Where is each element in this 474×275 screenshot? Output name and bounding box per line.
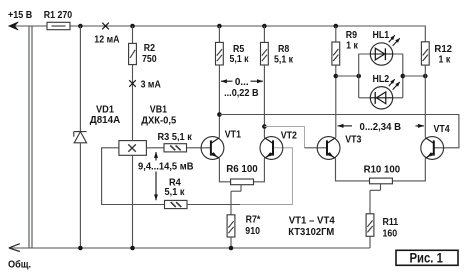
- svg-text:VT2: VT2: [281, 130, 297, 142]
- hall sensor VB1: [119, 141, 146, 156]
- svg-text:5,1 к: 5,1 к: [274, 54, 294, 66]
- wire top +15V rail: [10, 25, 47, 27]
- resistor R8: [261, 42, 269, 65]
- node junction VB1/common rail: [130, 246, 135, 251]
- svg-text:VT1 – VT4: VT1 – VT4: [289, 215, 335, 227]
- wire R2 bottom lead to VB1: [132, 65, 134, 140]
- svg-text:VT4: VT4: [434, 123, 450, 135]
- measure arrow 9,4...14,5 mV: [155, 152, 157, 200]
- wire R5 to VT1 collector: [218, 65, 220, 137]
- wire VT2 emitter to R6: [254, 158, 265, 181]
- resistor R11: [366, 214, 374, 237]
- wire VT3 emitter to R10: [336, 158, 370, 181]
- svg-text:0...: 0...: [235, 76, 249, 88]
- svg-text:160: 160: [383, 228, 398, 240]
- wire VT3 base lead: [305, 147, 328, 149]
- wire VT4 emitter to R10: [392, 158, 425, 181]
- node junction VD1/top rail: [78, 24, 83, 29]
- svg-text:VT1: VT1: [225, 129, 241, 141]
- led HL1: [359, 35, 403, 65]
- node junction R2/top rail: [130, 24, 135, 29]
- svg-text:1 к: 1 к: [346, 39, 358, 51]
- resistor R4: [165, 200, 188, 208]
- wire HL bracket left vertical: [358, 54, 360, 98]
- svg-text:R3 5,1 к: R3 5,1 к: [158, 131, 193, 143]
- transistor VT1: [201, 137, 224, 160]
- wire R8 to VT2 collector: [263, 65, 265, 137]
- node junction VT1 collector: [217, 112, 222, 117]
- transistor VT3: [317, 137, 340, 160]
- measure arrow 0...2,34 V: [338, 125, 424, 127]
- wire R4 to VT2 base: [187, 204, 240, 206]
- svg-text:R7*: R7*: [246, 214, 261, 226]
- svg-text:750: 750: [142, 53, 157, 65]
- svg-text:ДХК-0,5: ДХК-0,5: [141, 114, 176, 126]
- wire VB1 left output loop to R4: [102, 148, 165, 205]
- wire R4 to VT2 base (light jog): [240, 148, 292, 205]
- wire break X 12mA: [102, 23, 109, 30]
- wire R12 to VT4 collector: [424, 65, 426, 137]
- resistor R6: [231, 179, 254, 185]
- node junction HL bracket right: [401, 74, 406, 79]
- svg-text:R10 100: R10 100: [364, 164, 401, 176]
- svg-text:12 мА: 12 мА: [94, 34, 120, 46]
- resistor R3: [164, 144, 187, 152]
- node junction R9/top rail: [334, 24, 339, 29]
- wire VD1 cathode from top rail: [79, 26, 81, 132]
- svg-text:0...2,34 В: 0...2,34 В: [360, 121, 402, 133]
- svg-text:HL1: HL1: [373, 29, 390, 41]
- node junction R7/common rail: [229, 246, 234, 251]
- node junction R12 bottom: [423, 74, 428, 79]
- wire R6 tap to R7: [231, 185, 241, 215]
- frame Рис. 1: [396, 250, 458, 265]
- transistor VT4 (mirrored): [421, 137, 444, 160]
- transistor VT2 (mirrored): [260, 137, 283, 160]
- diode VD1 zener: [74, 132, 87, 143]
- resistor R1: [47, 22, 70, 29]
- measure arrow 0...0,22 V: [221, 80, 263, 82]
- svg-text:+15 В: +15 В: [8, 9, 33, 21]
- wire double supply run: [29, 26, 32, 248]
- resistor R2: [129, 43, 137, 64]
- node junction VT2 collector: [262, 124, 267, 129]
- wire VB1 bottom to common: [132, 155, 134, 248]
- node junction R9 bottom: [334, 74, 339, 79]
- wire break X 3mA: [129, 80, 136, 87]
- wire R10 tap to R11: [370, 184, 381, 214]
- svg-text:R6 100: R6 100: [226, 163, 258, 175]
- wire R8 top lead: [263, 26, 265, 42]
- wire bottom common rail: [10, 247, 370, 249]
- wire VT1 collector to VT4 base (long): [219, 115, 459, 148]
- wire R3 to VT1 base: [187, 147, 211, 149]
- wire HL node right to R12: [403, 75, 426, 77]
- resistor R9: [332, 42, 340, 65]
- resistor R7: [227, 215, 235, 237]
- node junction HL bracket left: [356, 74, 361, 79]
- svg-text:HL2: HL2: [373, 73, 390, 85]
- svg-text:5,1 к: 5,1 к: [230, 53, 250, 65]
- wire R9 to VT3 collector: [335, 65, 337, 137]
- resistor R12: [421, 42, 429, 65]
- svg-text:910: 910: [245, 225, 260, 237]
- svg-text:VT3: VT3: [345, 133, 361, 145]
- wire VT2 collector to VT3 base: [264, 127, 304, 148]
- wire top rail from R1 to right corner: [70, 26, 425, 42]
- svg-text:R1 270: R1 270: [44, 9, 73, 21]
- svg-text:Рис. 1: Рис. 1: [410, 250, 444, 265]
- wire HL bracket right vertical: [402, 54, 404, 98]
- node arrow Общ (left terminal): [9, 244, 20, 252]
- node arrow +15V (left terminal): [9, 22, 19, 30]
- svg-text:3 мА: 3 мА: [141, 78, 162, 90]
- svg-text:9,4...14,5 мВ: 9,4...14,5 мВ: [138, 160, 194, 172]
- wire VD1 anode to common: [79, 143, 81, 248]
- wire VT1 emitter to R6: [219, 158, 230, 181]
- wire R2 top lead: [132, 26, 134, 43]
- svg-text:1 к: 1 к: [439, 54, 451, 66]
- node junction VD1/common rail: [78, 246, 83, 251]
- svg-text:5,1 к: 5,1 к: [165, 186, 186, 198]
- resistor R10: [370, 178, 393, 184]
- led HL2: [359, 79, 403, 109]
- wire R5 top lead: [218, 26, 220, 42]
- svg-text:...0,22 В: ...0,22 В: [224, 87, 259, 99]
- wire VB1 right output to R3: [146, 147, 164, 149]
- resistor R5: [216, 42, 224, 65]
- node junction R5/top rail: [217, 24, 222, 29]
- wire HL node left: [336, 75, 359, 77]
- wire R7 bottom to common: [230, 237, 232, 248]
- wire R11 bottom to common: [369, 236, 371, 248]
- svg-text:Д814А: Д814А: [90, 114, 121, 126]
- svg-text:КТ3102ГМ: КТ3102ГМ: [288, 226, 334, 238]
- node junction R8/top rail: [262, 24, 267, 29]
- wire R9 top lead: [335, 26, 337, 42]
- svg-text:R11: R11: [383, 216, 399, 228]
- svg-text:Общ.: Общ.: [8, 259, 31, 271]
